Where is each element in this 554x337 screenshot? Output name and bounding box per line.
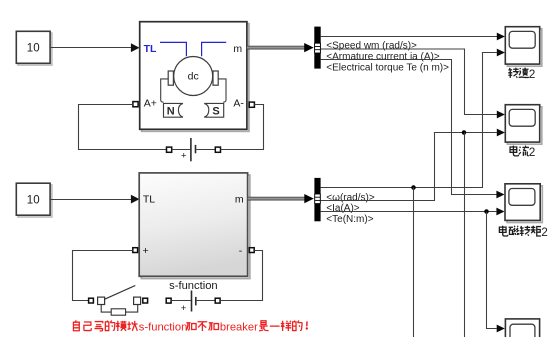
wire C1 to DC machine TL input [50,43,139,52]
wire + port to breaker [73,251,133,301]
svg-text:TL: TL [143,193,155,205]
wire C2 to s-function TL input [50,195,139,204]
magnet pole S [204,103,224,117]
wire A+ to battery V1 [79,105,167,150]
svg-text:dc: dc [188,71,199,83]
svg-text:+: + [181,151,187,162]
scope3 in2 arrow [496,208,504,216]
wire Te branch down to scope4 in1 [487,212,497,329]
brush lead to A+ [161,79,169,102]
bus wire m to Bus Selector 2 [248,194,314,203]
s-function subsystem block U2 [139,173,250,279]
svg-text:<Ia(A)>: <Ia(A)> [326,203,360,214]
svg-text:2: 2 [529,145,536,159]
svg-text:A+: A+ [144,98,157,110]
wire omega branch down [413,188,415,337]
constant block C1 "10" [16,31,52,65]
wire Ia branch down [464,133,466,337]
wire B1 Electrical torque to scope3 in1 [321,60,505,199]
scope3 box [505,184,542,223]
rotor circle dc [174,57,213,96]
battery V2 (DC voltage source) [166,291,220,314]
wire B2 Te to scope3 in2 [321,211,497,213]
scope3 label (dianci zhuanju 2) [499,225,548,239]
wire battery V1 to A- [221,105,264,150]
svg-text:<ω(rad/s)>: <ω(rad/s)> [326,192,375,203]
brush lead to A- [218,79,226,102]
wire battery V2 to - port [220,251,262,301]
bus wire m to Bus Selector 1 [247,43,314,52]
scope1 label (zhuansu2) [508,67,535,81]
port - connection square [249,248,254,253]
svg-text:S: S [212,106,219,118]
battery V1 (DC voltage source) [167,138,221,162]
bus selector B1 [314,27,320,69]
svg-text:breaker: breaker [220,321,258,333]
bus selector B2 [314,178,320,221]
port A+ connection square [133,102,138,107]
scope1 box [505,27,542,66]
scope4 box (partially visible) [505,319,539,337]
port square p1 [89,298,94,303]
junction dot Ia [462,130,467,135]
port + connection square [133,248,138,253]
svg-text:2: 2 [541,225,548,239]
scope2 label (dianliu2) [510,145,535,159]
svg-text:m: m [233,43,242,55]
svg-text:2: 2 [529,67,536,81]
wire B1 Armature current to scope2 in1 [321,49,505,118]
svg-text:<Speed wm (rad/s)>: <Speed wm (rad/s)> [326,40,417,51]
junction dot omega [411,185,416,190]
field winding blue wires [160,42,226,56]
svg-text:<Armature current ia (A)>: <Armature current ia (A)> [326,51,440,62]
svg-text:TL: TL [144,43,157,55]
DC machine block U1 [140,22,249,132]
constant block C2 "10" [16,183,52,217]
port square p2 [143,298,148,303]
svg-text:<Te(N:m)>: <Te(N:m)> [326,214,373,225]
svg-text:10: 10 [27,42,40,54]
left brush [168,71,173,85]
svg-text:s-function: s-function [139,321,188,333]
scope2 box [505,105,542,145]
svg-text:10: 10 [27,194,40,206]
red annotation text [73,320,308,333]
port A- connection square [249,102,254,107]
svg-text:<Electrical torque Te (n m)>: <Electrical torque Te (n m)> [326,62,449,73]
svg-text:m: m [235,193,244,205]
junction dot Te [484,209,489,214]
svg-text:A-: A- [233,98,244,110]
wire B1 Speed wm to scope1 in1 [321,33,505,41]
scope2 in2 arrow [497,129,505,137]
scope1 in2 arrow [497,49,505,57]
wire B2 Ia to scope2 in2 [321,133,498,201]
svg-text:-: - [239,245,243,257]
right brush [213,71,218,85]
svg-text:s-function: s-function [169,280,218,292]
svg-text:+: + [143,245,149,257]
wire B2 omega to scope1 in2 [321,53,498,188]
scope4 in1 arrow [497,325,505,333]
svg-text:N: N [167,106,175,118]
svg-text:+: + [181,303,187,314]
magnet pole N [164,103,184,117]
breaker Q1 (switch) [98,286,141,316]
